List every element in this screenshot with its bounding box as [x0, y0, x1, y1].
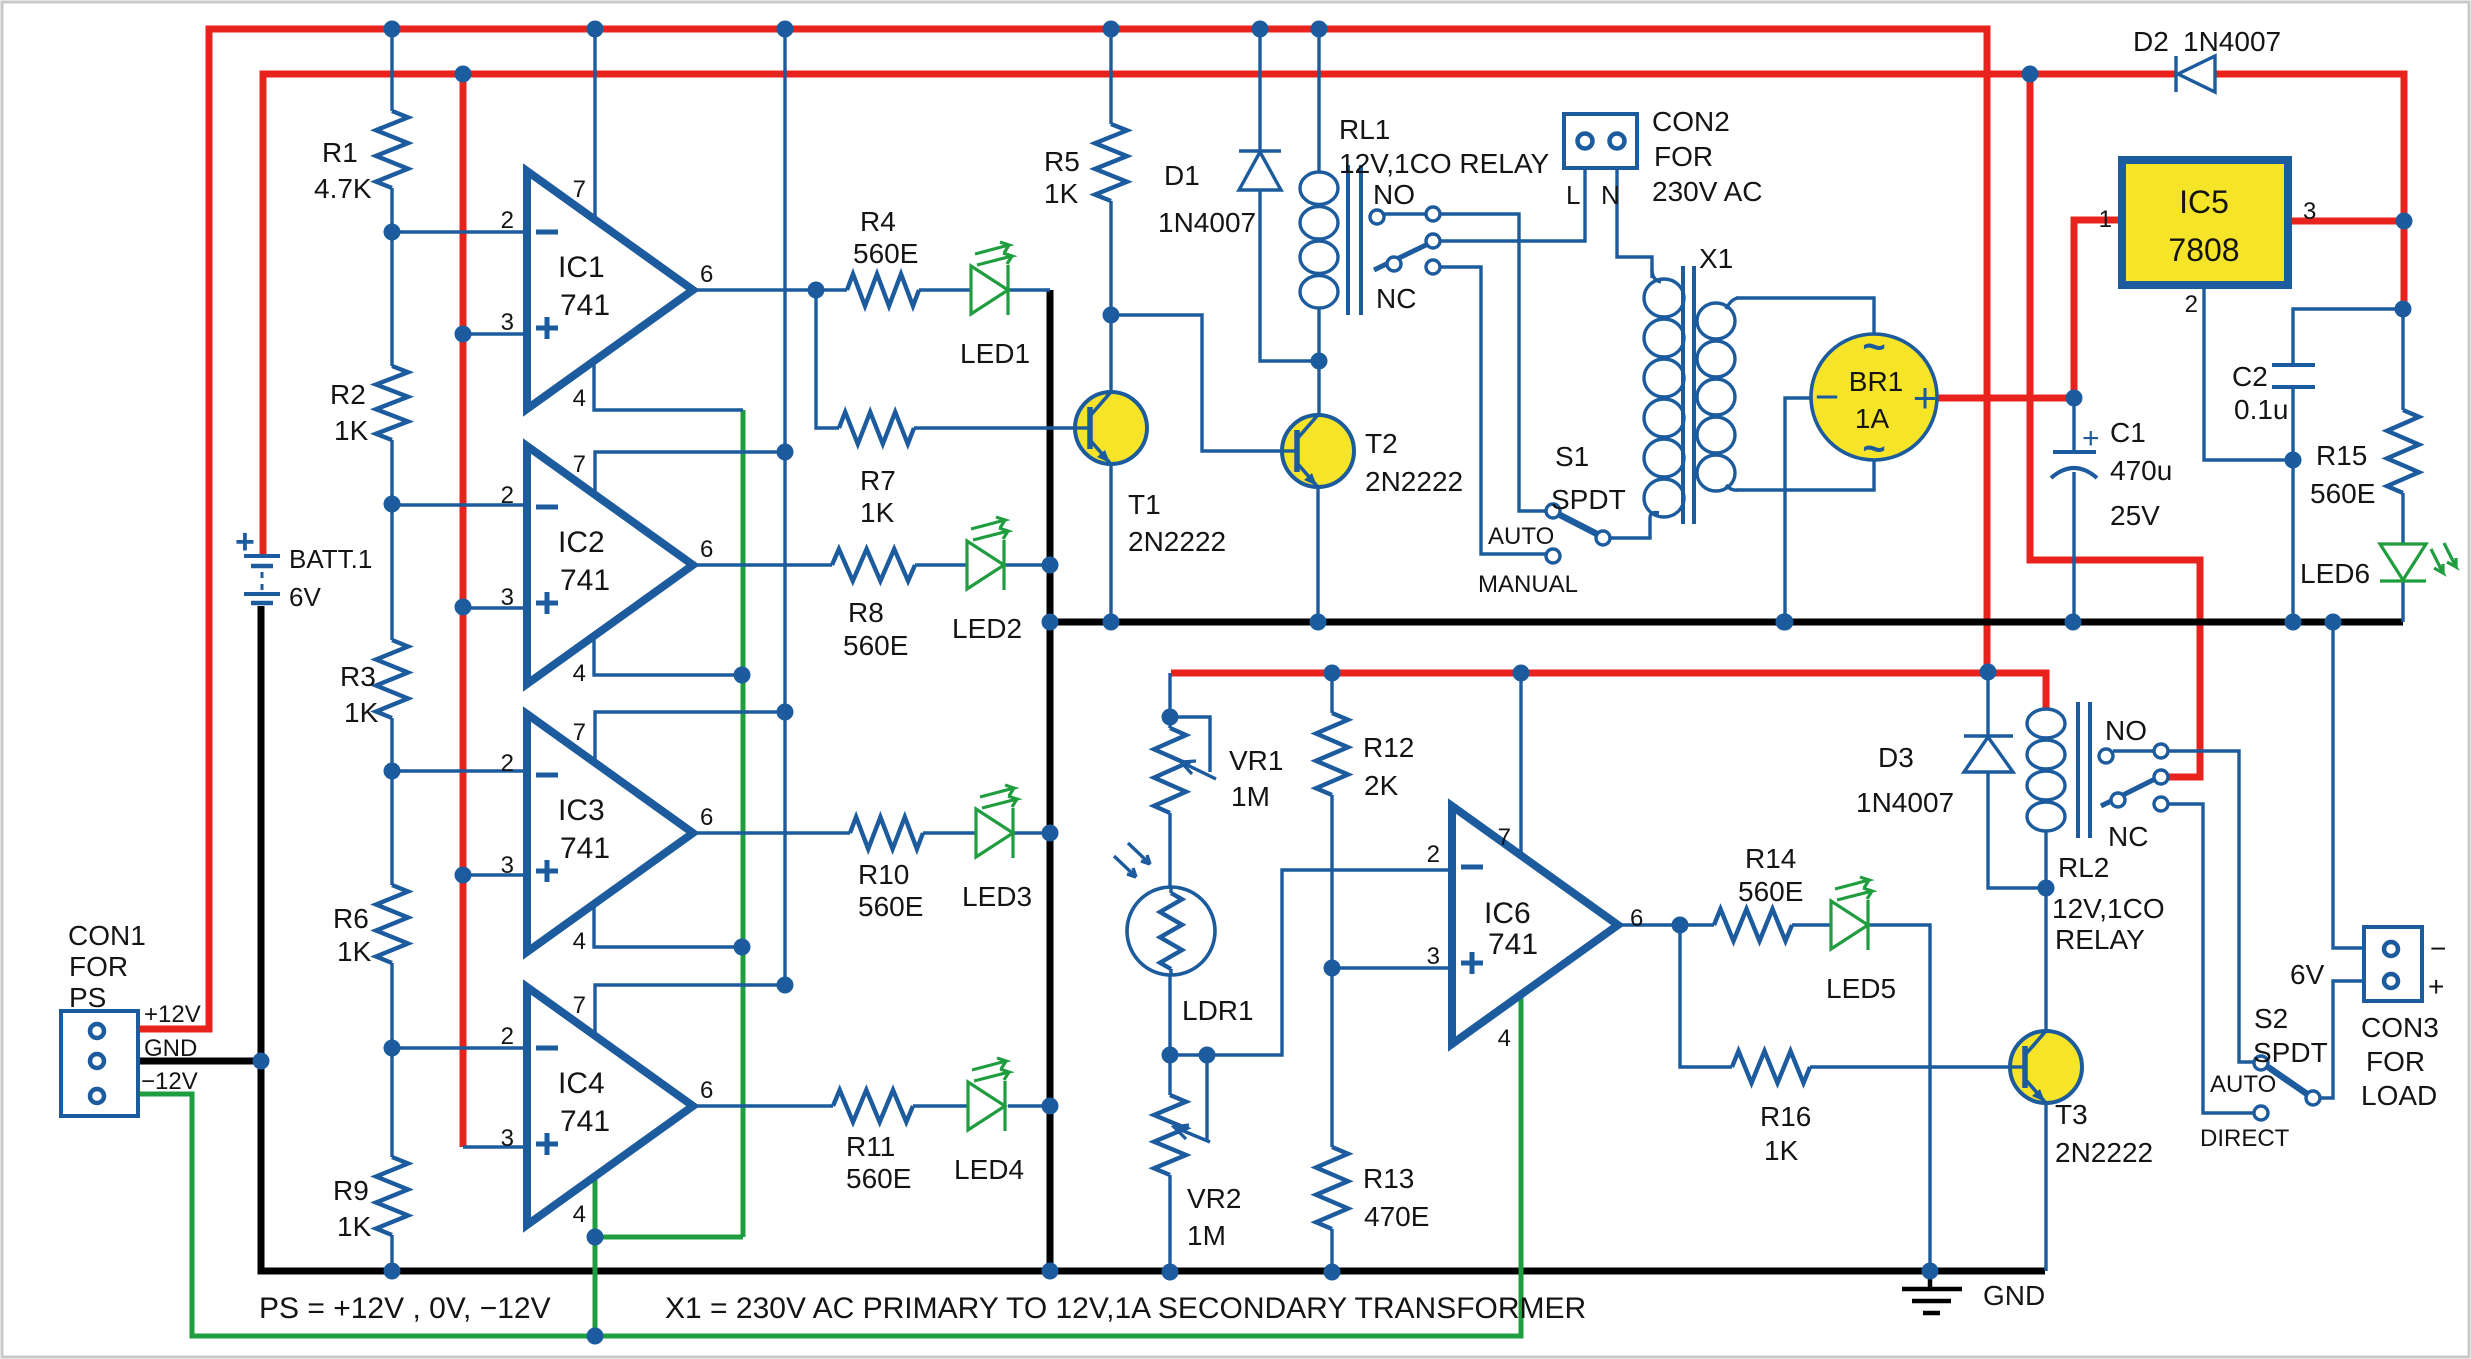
svg-text:LED4: LED4: [954, 1154, 1024, 1185]
svg-text:560E: 560E: [1738, 876, 1803, 907]
node LDR1 / VR2: [1162, 1047, 1179, 1064]
RL1 arm pivot: [1387, 257, 1401, 271]
wire IC5 pin3 output: [2288, 218, 2404, 225]
svg-text:R11: R11: [846, 1131, 895, 1162]
svg-text:−12V: −12V: [141, 1068, 198, 1095]
wire S1 common to X1 primary: [1610, 517, 1650, 538]
svg-text:LED6: LED6: [2300, 558, 2370, 589]
node LED3 cathode: [1042, 825, 1059, 842]
wire X1 secondary bottom to BR1: [1736, 460, 1874, 490]
resistor R2: [376, 366, 408, 440]
node pin4 bus IC3: [734, 939, 751, 956]
wire IC1 pin3: [463, 332, 527, 335]
node IC3 pin3: [455, 867, 472, 884]
node RL2 coil / D3 / T3: [2038, 880, 2055, 897]
potentiometer VR2: [1154, 1095, 1186, 1175]
wire IC6 output to R14: [1622, 923, 1714, 926]
svg-text:4: 4: [573, 928, 586, 955]
wire C2 node to ground bus: [2291, 460, 2294, 622]
RL2 NO contact: [2154, 744, 2168, 758]
svg-text:RELAY: RELAY: [2055, 924, 2145, 955]
node VR2 wiper tie: [1199, 1047, 1216, 1064]
svg-text:6: 6: [700, 804, 713, 831]
svg-text:FOR: FOR: [1654, 141, 1713, 172]
svg-text:PS = +12V , 0V, −12V: PS = +12V , 0V, −12V: [259, 1292, 551, 1325]
switch S1 arm: [1560, 515, 1597, 534]
svg-text:R12: R12: [1363, 732, 1414, 763]
svg-text:PS: PS: [69, 982, 106, 1013]
diode D1 1N4007: [1239, 149, 1281, 152]
node R13 ground: [1324, 1264, 1341, 1281]
wire BR1+ to C1 node: [1937, 395, 2074, 402]
capacitor C2 0.1u: [2272, 363, 2315, 367]
node rail B / pin3 bus: [455, 66, 472, 83]
svg-text:3: 3: [501, 1125, 514, 1152]
wire pin4 bus jog: [595, 1235, 743, 1240]
svg-text:R10: R10: [858, 859, 909, 890]
svg-text:CON1: CON1: [68, 920, 146, 951]
wire D1 anode: [1260, 190, 1319, 361]
svg-text:2: 2: [1427, 841, 1440, 868]
svg-text:7: 7: [573, 176, 586, 203]
svg-text:560E: 560E: [853, 238, 918, 269]
wire ground bus to CON3 minus: [2333, 622, 2364, 948]
svg-text:GND: GND: [1983, 1280, 2045, 1311]
svg-text:LED3: LED3: [962, 881, 1032, 912]
svg-text:D2: D2: [2133, 26, 2169, 57]
svg-text:4.7K: 4.7K: [314, 173, 372, 204]
resistor R16: [1732, 1051, 1810, 1083]
svg-text:1A: 1A: [1855, 403, 1890, 434]
wire LDR junction to IC6 pin2: [1171, 870, 1452, 1055]
wire VR1 to LDR1: [1168, 813, 1171, 887]
wire IC4 pin2: [392, 1046, 527, 1049]
resistor R5: [1095, 124, 1127, 201]
wire CON1 GND stub: [138, 1058, 261, 1065]
op-amp IC6: [1452, 806, 1618, 1044]
wire R16 to T3 base: [1810, 1065, 2010, 1068]
wire LED1 cathode to bus: [1008, 288, 1050, 291]
svg-text:560E: 560E: [843, 630, 908, 661]
svg-text:VR1: VR1: [1229, 745, 1283, 776]
svg-text:R16: R16: [1760, 1101, 1811, 1132]
node rail A / IC1 pin7: [587, 21, 604, 38]
wire R5 top lead: [1109, 29, 1112, 124]
wire RL2 NC to S2 DIRECT: [2168, 804, 2254, 1113]
node pin4 jog: [587, 1229, 604, 1246]
svg-text:1K: 1K: [337, 1211, 372, 1242]
LED4: [968, 1082, 1005, 1130]
wire BR1 minus to ground: [1785, 398, 1811, 622]
S2 common contact: [2306, 1091, 2320, 1105]
svg-text:2: 2: [501, 750, 514, 777]
RL1 NO left contact: [1370, 210, 1384, 224]
wire R14 to LED5: [1792, 923, 1831, 926]
wire IC1 output to R: [693, 288, 847, 291]
svg-text:LED1: LED1: [960, 338, 1030, 369]
wire divider chain bottom: [390, 1235, 393, 1271]
node R1-R2 IC1 pin2: [384, 224, 401, 241]
wire IC2 pin7: [595, 452, 785, 496]
wire R5 to T1 collector: [1109, 201, 1112, 315]
node pin7 bus IC2: [777, 444, 794, 461]
wire C1 positive lead: [2072, 398, 2075, 451]
wire IC1 pin4: [594, 361, 743, 410]
resistor R3: [376, 640, 408, 718]
wire T1 collector: [1109, 315, 1112, 392]
svg-text:AUTO: AUTO: [1488, 523, 1554, 550]
svg-text:GND: GND: [144, 1035, 197, 1062]
svg-text:NO: NO: [2105, 715, 2147, 746]
svg-text:1K: 1K: [1764, 1135, 1799, 1166]
svg-text:6: 6: [700, 536, 713, 563]
resistor R11: [833, 1090, 913, 1122]
svg-text:R1: R1: [322, 137, 358, 168]
svg-text:1K: 1K: [1044, 178, 1079, 209]
node IC5 pin2 / C2: [2285, 452, 2302, 469]
wire LED3 cathode to bus: [1013, 831, 1050, 834]
svg-text:T3: T3: [2055, 1099, 2088, 1130]
wire IC3 pin3: [463, 873, 527, 876]
RL2 NC contact: [2154, 797, 2168, 811]
svg-text:230V AC: 230V AC: [1652, 176, 1763, 207]
wire D3 cathode to rail C: [1986, 673, 1989, 736]
node LED4 cathode: [1042, 1098, 1059, 1115]
svg-text:12V,1CO RELAY: 12V,1CO RELAY: [1339, 148, 1549, 179]
svg-text:−: −: [1815, 373, 1840, 420]
wire IC3 pin7: [595, 712, 785, 761]
wire divider chain R1-R2: [390, 188, 393, 366]
svg-text:NO: NO: [1373, 179, 1415, 210]
wire C2 top lead to output node: [2293, 309, 2403, 365]
node R12 / R13 / IC6 pin3: [1324, 960, 1341, 977]
node rail C / IC6 pin7: [1513, 665, 1530, 682]
resistor R14: [1714, 909, 1792, 941]
svg-text:2: 2: [501, 482, 514, 509]
S1 MANUAL contact: [1546, 549, 1560, 563]
svg-text:IC3: IC3: [558, 794, 605, 827]
wire LED6 cathode to ground bus: [2401, 581, 2404, 622]
op-amp IC3: [527, 714, 693, 952]
connector CON1: [61, 1011, 138, 1116]
resistor R7: [839, 412, 914, 444]
node CON1 GND: [253, 1053, 270, 1070]
wire T2 collector: [1317, 361, 1320, 415]
node rail B / RL2 feed: [2022, 66, 2039, 83]
wire divider chain top: [390, 29, 393, 111]
svg-text:741: 741: [560, 564, 610, 597]
wire IC4 pin4: [593, 1170, 598, 1336]
wire divider chain R2-R3: [390, 440, 393, 640]
RL1 pole contact: [1426, 234, 1440, 248]
svg-text:7: 7: [573, 992, 586, 1019]
S1 AUTO contact: [1546, 504, 1560, 518]
svg-text:CON2: CON2: [1652, 106, 1730, 137]
svg-text:FOR: FOR: [69, 951, 128, 982]
wire LED cathode bus vertical: [1047, 290, 1054, 1271]
svg-text:741: 741: [560, 1105, 610, 1138]
node VR1 wiper tie: [1162, 709, 1179, 726]
diode D3 1N4007: [1964, 734, 2013, 737]
svg-text:+12V: +12V: [144, 1001, 201, 1028]
node divider to ground: [384, 1263, 401, 1280]
svg-text:IC6: IC6: [1484, 897, 1531, 930]
svg-text:R14: R14: [1745, 843, 1796, 874]
wire divider chain R3-R6: [390, 718, 393, 885]
node T1 collector: [1103, 307, 1120, 324]
svg-text:741: 741: [560, 832, 610, 865]
svg-text:S2: S2: [2254, 1003, 2288, 1034]
wire IC6 pin7 to rail C: [1519, 673, 1522, 853]
node rail C / D3: [1980, 664, 1997, 681]
wire IC2 pin3: [463, 606, 527, 609]
connector CON3: [2364, 927, 2422, 1001]
node R2-R3 IC2 pin2: [384, 496, 401, 513]
wire CON2 N to X1 primary top: [1617, 168, 1652, 278]
svg-text:T2: T2: [1365, 428, 1398, 459]
wire VR2 wiper loop: [1205, 1055, 1208, 1140]
svg-text:2K: 2K: [1364, 770, 1399, 801]
wire VR1 top lead: [1168, 673, 1171, 728]
svg-text:S1: S1: [1555, 441, 1589, 472]
svg-text:+: +: [2428, 971, 2444, 1002]
wire IC3 pin2: [392, 769, 527, 772]
svg-text:R5: R5: [1044, 146, 1080, 177]
svg-text:VR2: VR2: [1187, 1183, 1241, 1214]
potentiometer VR1: [1154, 728, 1186, 813]
svg-text:R7: R7: [860, 465, 896, 496]
svg-text:R15: R15: [2316, 440, 2367, 471]
wire pin7 bus vertical: [783, 29, 786, 985]
S2 DIRECT contact: [2254, 1106, 2268, 1120]
wire LDR1 bottom: [1168, 975, 1171, 1055]
svg-text:2N2222: 2N2222: [1365, 466, 1463, 497]
svg-text:2: 2: [501, 1023, 514, 1050]
resistor R10: [850, 817, 923, 849]
node green bus: [587, 1328, 604, 1345]
svg-text:3: 3: [501, 584, 514, 611]
connector CON2: [1564, 114, 1637, 168]
svg-text:560E: 560E: [2310, 478, 2375, 509]
svg-text:25V: 25V: [2110, 500, 2160, 531]
wire R7 to T1 base: [914, 426, 1075, 429]
svg-text:C2: C2: [2232, 361, 2268, 392]
battery BATT.1 6V: [244, 554, 280, 558]
wire X1 secondary top to BR1: [1736, 298, 1874, 334]
node X1 secondary ground: [1776, 614, 1793, 631]
svg-text:1N4007: 1N4007: [1158, 207, 1256, 238]
wire battery+ to op-amp pin3 reference bus: [460, 74, 467, 1147]
S2 AUTO contact: [2254, 1056, 2268, 1070]
svg-text:7: 7: [573, 451, 586, 478]
svg-text:7: 7: [1498, 824, 1511, 851]
wire T1 collector to T2 base: [1111, 315, 1282, 451]
wire RL2 NO to S2 common: [2168, 751, 2255, 1062]
svg-text:MANUAL: MANUAL: [1478, 571, 1578, 598]
resistor R15: [2387, 410, 2419, 493]
svg-text:−: −: [2430, 933, 2446, 964]
wire VR1 wiper loop: [1170, 717, 1210, 772]
node rail A / D1: [1252, 21, 1269, 38]
wire RL2 NO contact row: [2113, 749, 2154, 752]
svg-text:BATT.1: BATT.1: [289, 544, 372, 574]
node T2 emitter: [1310, 614, 1327, 631]
svg-text:6: 6: [1630, 905, 1643, 932]
resistor R1: [376, 111, 408, 188]
node pin4 bus IC2: [734, 667, 751, 684]
node rail A / R1: [384, 21, 401, 38]
op-amp IC4: [527, 987, 693, 1225]
svg-text:D1: D1: [1164, 160, 1200, 191]
node BR1+ / C1 / IC5 in: [2066, 390, 2083, 407]
svg-text:12V,1CO: 12V,1CO: [2052, 893, 2165, 924]
wire -12V from CON1 to IC6 pin4: [138, 998, 1521, 1336]
relay coil RL1: [1300, 172, 1338, 204]
bridge rectifier BR1: [1811, 334, 1937, 460]
wire op-amp pin4 bus: [741, 410, 746, 1237]
svg-text:LDR1: LDR1: [1182, 995, 1254, 1026]
node C1 ground: [2065, 614, 2082, 631]
node rail A / R5: [1103, 21, 1120, 38]
wire mid +V rail C: [1171, 673, 2046, 708]
svg-text:1K: 1K: [860, 497, 895, 528]
svg-text:LED2: LED2: [952, 613, 1022, 644]
wire battery+ to RL2 pole contact: [2030, 74, 2200, 777]
RL2 pole contact: [2154, 770, 2168, 784]
node pin7 bus IC4: [777, 977, 794, 994]
wire R to LED3: [923, 831, 976, 834]
svg-text:BR1: BR1: [1849, 366, 1903, 397]
wire R12 to R13: [1330, 795, 1333, 1147]
RL2 arm pivot: [2111, 793, 2125, 807]
transistor T3 2N2222: [2010, 1031, 2082, 1103]
svg-text:2: 2: [2185, 291, 2198, 318]
svg-text:RL2: RL2: [2058, 852, 2109, 883]
svg-text:6V: 6V: [2290, 959, 2325, 990]
wire +12V rail A from CON1: [138, 29, 1987, 1029]
wire C2 bottom lead: [2291, 387, 2294, 460]
wire C1 negative lead: [2072, 472, 2075, 622]
wire RL1 NO to S1 AUTO: [1440, 214, 1546, 511]
wire IC4 pin7: [595, 985, 785, 1035]
svg-text:R6: R6: [333, 903, 369, 934]
wire IC3 pin4: [594, 902, 742, 947]
wire VR2 bottom to ground: [1168, 1175, 1171, 1272]
transformer X1 primary winding: [1644, 279, 1684, 317]
svg-text:+: +: [2082, 422, 2100, 455]
svg-text:C1: C1: [2110, 417, 2146, 448]
svg-text:1: 1: [2099, 206, 2112, 233]
capacitor C1 470u electrolytic: [2053, 450, 2096, 454]
node IC1 pin3: [455, 326, 472, 343]
wire IC2 pin2: [392, 503, 527, 506]
resistor R8: [832, 549, 915, 581]
svg-text:6: 6: [700, 1077, 713, 1104]
svg-text:NC: NC: [1376, 283, 1416, 314]
LED1: [971, 266, 1008, 314]
svg-text:+: +: [1913, 374, 1938, 421]
wire IC6 output to R16: [1680, 925, 1732, 1067]
node pin7 bus IC3: [777, 704, 794, 721]
wire R12 top lead: [1330, 673, 1333, 713]
svg-text:FOR: FOR: [2366, 1046, 2425, 1077]
wire R to LED1: [919, 288, 971, 291]
svg-text:1N4007: 1N4007: [2183, 26, 2281, 57]
LED3: [976, 809, 1013, 857]
LED2: [967, 541, 1004, 589]
wire LED4 cathode to bus: [1008, 1104, 1050, 1107]
relay RL2 arm: [2101, 779, 2155, 806]
svg-text:4: 4: [573, 385, 586, 412]
wire R15 to LED6: [2401, 493, 2404, 544]
wire IC5 pin1 input: [2074, 220, 2122, 398]
wire IC5 pin2 to ground node: [2204, 285, 2293, 460]
svg-text:SPDT: SPDT: [2253, 1037, 2328, 1068]
svg-text:R3: R3: [340, 661, 376, 692]
wire T2 emitter to ground: [1316, 487, 1319, 622]
node LED5 ground / GND: [1922, 1263, 1939, 1280]
node RL1 coil / D1 / T2: [1311, 353, 1328, 370]
svg-text:4: 4: [1498, 1025, 1511, 1052]
node IC5 out / rail B: [2396, 213, 2413, 230]
svg-text:~: ~: [1862, 325, 1885, 369]
svg-text:741: 741: [1488, 928, 1538, 961]
svg-text:L: L: [1566, 180, 1580, 210]
svg-text:R9: R9: [333, 1175, 369, 1206]
svg-text:1M: 1M: [1231, 781, 1270, 812]
RL2 NO left contact: [2099, 749, 2113, 763]
wire output node to R15: [2401, 309, 2404, 410]
wire rail B right segment from D2 to IC5 output node: [2215, 74, 2404, 309]
wire LED2 cathode to bus: [1004, 563, 1050, 566]
svg-text:RL1: RL1: [1339, 114, 1390, 145]
svg-text:3: 3: [501, 852, 514, 879]
node T1 emitter: [1103, 614, 1120, 631]
svg-text:3: 3: [501, 309, 514, 336]
node VR2 ground: [1162, 1264, 1179, 1281]
svg-text:LED5: LED5: [1826, 973, 1896, 1004]
svg-text:1M: 1M: [1187, 1220, 1226, 1251]
wire IC3 output to R: [693, 831, 850, 834]
wire IC1 pin2: [392, 230, 527, 233]
svg-text:IC4: IC4: [558, 1067, 605, 1100]
switch S2 arm: [2268, 1067, 2307, 1094]
transistor T2 2N2222: [1282, 415, 1354, 487]
svg-text:7: 7: [573, 719, 586, 746]
svg-text:741: 741: [560, 289, 610, 322]
transistor T1 2N2222: [1075, 392, 1147, 464]
svg-text:R4: R4: [860, 206, 896, 237]
wire T1 emitter to ground: [1109, 464, 1112, 622]
node LED2 cathode: [1042, 557, 1059, 574]
svg-text:N: N: [1601, 180, 1620, 210]
svg-text:6: 6: [700, 261, 713, 288]
wire VR2 top lead: [1168, 1055, 1171, 1095]
node IC2 pin3: [455, 599, 472, 616]
wire battery negative / bottom ground bus: [261, 606, 2045, 1271]
resistor R9: [376, 1157, 408, 1235]
svg-text:2: 2: [501, 207, 514, 234]
node R3-R6 IC3 pin2: [384, 763, 401, 780]
svg-text:4: 4: [573, 1201, 586, 1228]
wire IC2 pin4: [594, 635, 742, 675]
S1 common contact: [1596, 531, 1610, 545]
svg-text:AUTO: AUTO: [2210, 1071, 2276, 1098]
svg-text:X1 = 230V AC PRIMARY TO 12V,1A: X1 = 230V AC PRIMARY TO 12V,1A SECONDARY…: [665, 1292, 1586, 1325]
wire IC2 output to R: [693, 563, 832, 566]
svg-text:R2: R2: [330, 379, 366, 410]
resistor R4: [847, 274, 919, 306]
